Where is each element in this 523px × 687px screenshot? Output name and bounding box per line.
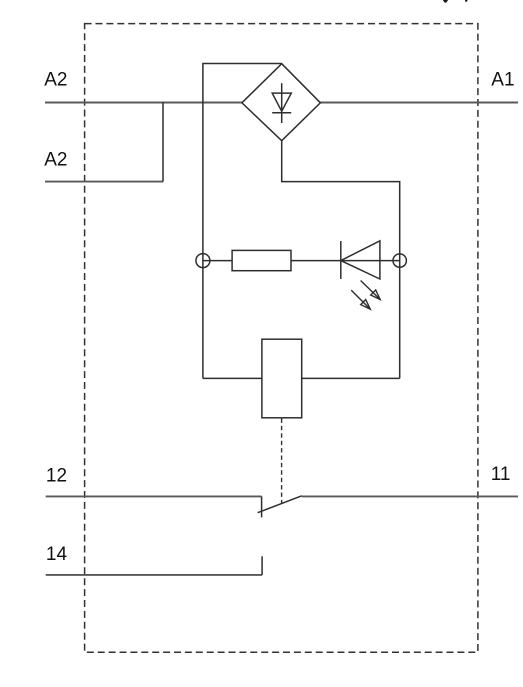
svg-text:A1: A1 xyxy=(491,70,514,91)
svg-text:11: 11 xyxy=(491,464,511,485)
svg-text:A2: A2 xyxy=(44,149,67,170)
svg-text:12: 12 xyxy=(46,465,67,486)
svg-text:14: 14 xyxy=(46,544,68,565)
svg-text:A2: A2 xyxy=(44,70,67,91)
